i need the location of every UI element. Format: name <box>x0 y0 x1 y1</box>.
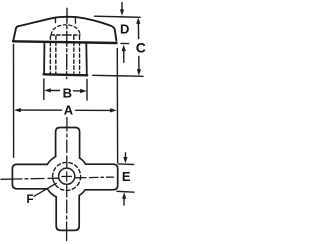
right prong <box>85 164 118 190</box>
dim D bottom arrow shaft <box>123 51 125 62</box>
F leader line <box>34 183 56 196</box>
hidden drill line right <box>73 36 75 73</box>
hidden thread major line right <box>79 36 81 73</box>
bottom view hub circle arcs <box>80 158 86 164</box>
cap top seam tick left <box>54 17 56 22</box>
hidden thread circle <box>53 162 81 190</box>
dim D bottom arrowhead <box>122 45 126 52</box>
bottom extension line (hub bottom level) <box>93 75 143 76</box>
dim B left extension line <box>43 79 45 100</box>
dim A dimension line right <box>76 109 111 111</box>
center hole circle <box>59 168 75 184</box>
side view centerline <box>66 8 68 78</box>
dim B dimension line left <box>51 90 60 92</box>
dim B right extension line <box>86 80 88 101</box>
center cross horizontal tick <box>62 175 72 177</box>
left prong <box>12 164 47 188</box>
dim C top arrow shaft <box>137 24 139 39</box>
dim D top arrowhead <box>120 9 124 16</box>
dim C bottom arrow shaft <box>138 57 140 70</box>
dim A left extension line <box>13 45 15 158</box>
hub left edge <box>43 43 45 73</box>
svg-text:E: E <box>122 169 131 184</box>
dim C bottom arrowhead <box>137 69 141 76</box>
bottom view horizontal centerline <box>1 177 114 179</box>
hub right edge <box>85 43 88 74</box>
svg-text:F: F <box>26 194 33 206</box>
hidden thread major line left <box>49 36 51 73</box>
hub bottom edge <box>44 74 88 75</box>
knob cap outline (side view) <box>13 17 116 41</box>
dim A right arrowhead <box>110 108 117 112</box>
svg-text:B: B <box>63 86 72 101</box>
dim B dimension line right <box>74 90 81 92</box>
hidden hole spring line <box>51 34 80 36</box>
hidden drill line left <box>55 36 57 73</box>
dim B right arrowhead <box>80 89 87 93</box>
center cross vertical tick <box>66 172 68 181</box>
cap top seam tick right <box>74 17 76 23</box>
dim A right extension line <box>116 49 118 163</box>
top extension line (cap top level) <box>95 16 141 17</box>
svg-text:A: A <box>64 103 74 118</box>
dim E top arrowhead <box>123 157 127 164</box>
dim E bottom arrowhead <box>122 192 126 199</box>
dim A left arrowhead <box>14 108 21 112</box>
dim E bottom extension bar <box>117 190 134 193</box>
dim B left arrowhead <box>44 88 51 92</box>
cap bottom edge <box>13 41 117 43</box>
dim E bottom arrow shaft <box>123 199 125 205</box>
bottom prong <box>56 196 79 231</box>
dim D top arrow shaft <box>121 3 123 10</box>
dim E top extension bar <box>118 163 134 166</box>
svg-text:D: D <box>120 22 129 37</box>
dim E top arrow shaft <box>125 153 127 158</box>
svg-text:C: C <box>136 39 146 55</box>
hidden thread dome arc <box>51 25 80 35</box>
dim D bottom extension bar <box>121 42 129 44</box>
dim A dimension line left <box>21 109 62 111</box>
bottom view vertical centerline <box>66 118 68 241</box>
dim C top arrowhead <box>136 17 140 24</box>
top prong <box>56 128 80 158</box>
